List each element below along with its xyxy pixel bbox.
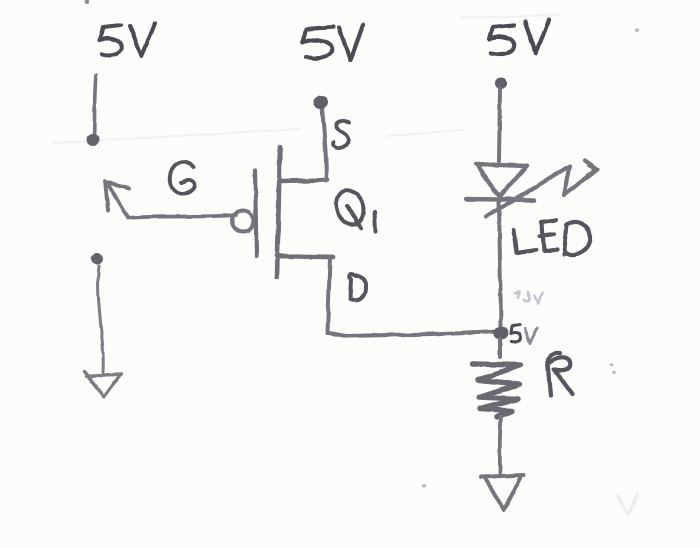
label G <box>170 162 195 194</box>
node G arrow <box>105 181 236 218</box>
transistor Q1 source arm <box>281 180 327 181</box>
wire LED cathode down to node <box>499 201 501 326</box>
wire right supply down <box>499 88 500 161</box>
transistor Q1 gate bubble <box>233 211 254 232</box>
stray specks <box>85 0 640 488</box>
node dot left lower <box>91 254 103 265</box>
label LED <box>514 220 590 255</box>
node dot left top <box>87 134 100 146</box>
faint note 1.3v <box>515 291 542 303</box>
label Q1 <box>336 190 375 231</box>
label R <box>548 353 572 396</box>
wire drain down <box>328 258 331 333</box>
ground (left) <box>84 371 121 397</box>
wire left lower to ground <box>98 266 103 372</box>
pin label S <box>334 121 349 148</box>
resistor R zigzag <box>473 364 521 417</box>
faint ghost mark bottom right <box>618 494 638 515</box>
node label 5V <box>511 325 537 343</box>
ground (right) <box>481 475 524 510</box>
node dot drain/LED/R junction <box>494 327 509 340</box>
transistor Q1 channel bar <box>277 147 280 277</box>
pin label D <box>350 275 366 300</box>
transistor Q1 drain arm <box>277 256 333 257</box>
wire source to 5V <box>322 107 326 181</box>
wire left supply stub <box>94 75 96 136</box>
LED light arrows <box>486 161 598 217</box>
wire resistor to ground <box>500 417 501 474</box>
label 5V (middle supply) <box>303 25 364 60</box>
label 5V (right supply) <box>490 20 550 54</box>
LED D1 triangle <box>466 164 534 200</box>
label 5V (left supply) <box>100 23 156 56</box>
paper creases <box>55 15 560 143</box>
wire node to resistor <box>498 339 502 357</box>
transistor Q1 gate bar <box>255 171 257 256</box>
node dot right supply <box>495 78 507 89</box>
node dot source <box>314 96 329 109</box>
wire drain to node (bottom horizontal) <box>328 331 500 336</box>
